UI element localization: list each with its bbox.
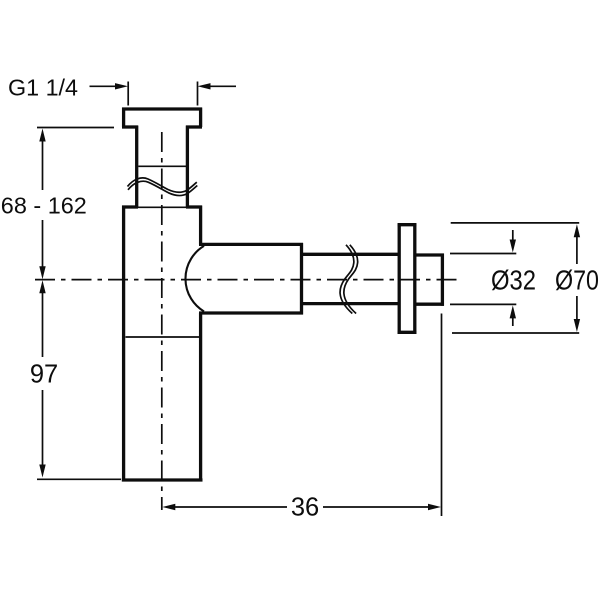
outlet stub top xyxy=(415,253,444,256)
dimension 68-162 vertical line with arrows xyxy=(39,129,45,280)
svg-text:Ø32: Ø32 xyxy=(491,265,536,296)
cup body right wall lower xyxy=(199,313,202,481)
dimension Ø32 arrows xyxy=(510,230,516,326)
cup joint line xyxy=(126,336,200,338)
outlet stub bottom xyxy=(415,303,444,306)
dimension G1 1/4 left arrow line xyxy=(90,85,118,87)
dimension 36 line with arrows xyxy=(162,504,441,510)
break squiggle on tube (upper line) xyxy=(128,178,197,192)
outlet stub end vertical xyxy=(441,254,444,306)
extension line right of G1 1/4 xyxy=(197,82,199,106)
svg-text:68 - 162: 68 - 162 xyxy=(1,192,87,218)
svg-text:Ø70: Ø70 xyxy=(555,265,599,296)
cup body left wall xyxy=(122,206,125,482)
top flange nut xyxy=(122,108,202,128)
break squiggle on pipe (left line) xyxy=(340,245,354,314)
outlet nut top xyxy=(398,223,417,226)
svg-text:G1 1/4: G1 1/4 xyxy=(8,75,78,101)
inlet tube walls xyxy=(137,126,188,208)
dimension Ø70 extension line bottom xyxy=(452,332,579,334)
inner joint line in tube xyxy=(138,165,186,167)
dimension Ø32 extension line bottom xyxy=(450,303,516,305)
dimension 36 extension line (right) xyxy=(441,314,443,517)
dimension G1 1/4 right arrow line xyxy=(210,85,236,87)
horizontal centerline xyxy=(35,279,458,281)
vertical centerline xyxy=(161,132,163,510)
break squiggle on tube (lower line) xyxy=(128,181,197,195)
dimension 68-162 extension line (top) xyxy=(37,127,114,129)
dimension Ø70 extension line top xyxy=(451,222,580,224)
outlet socket end vertical xyxy=(300,243,303,315)
break squiggle on pipe (right line) xyxy=(344,245,358,314)
outlet nut bottom xyxy=(398,331,417,334)
svg-text:97: 97 xyxy=(30,361,58,389)
outlet socket bottom edge xyxy=(199,311,303,314)
outlet pipe bottom edge xyxy=(302,302,400,305)
outlet socket top edge xyxy=(199,243,303,246)
socket interior arc xyxy=(185,246,204,312)
dimension Ø70 arrows xyxy=(574,224,580,332)
outlet nut right wall xyxy=(413,223,416,334)
dimension 97 vertical line with arrows xyxy=(39,280,45,477)
outlet pipe top edge xyxy=(302,253,400,256)
body shoulder xyxy=(122,205,202,209)
cup bottom xyxy=(122,478,203,481)
dimension Ø32 extension line top xyxy=(450,253,516,255)
dimension 97 extension line (bottom) xyxy=(37,478,121,480)
extension line left of G1 1/4 xyxy=(127,82,129,106)
outlet nut left wall xyxy=(398,223,401,334)
svg-text:36: 36 xyxy=(291,494,319,522)
cup body right wall upper xyxy=(199,206,202,245)
